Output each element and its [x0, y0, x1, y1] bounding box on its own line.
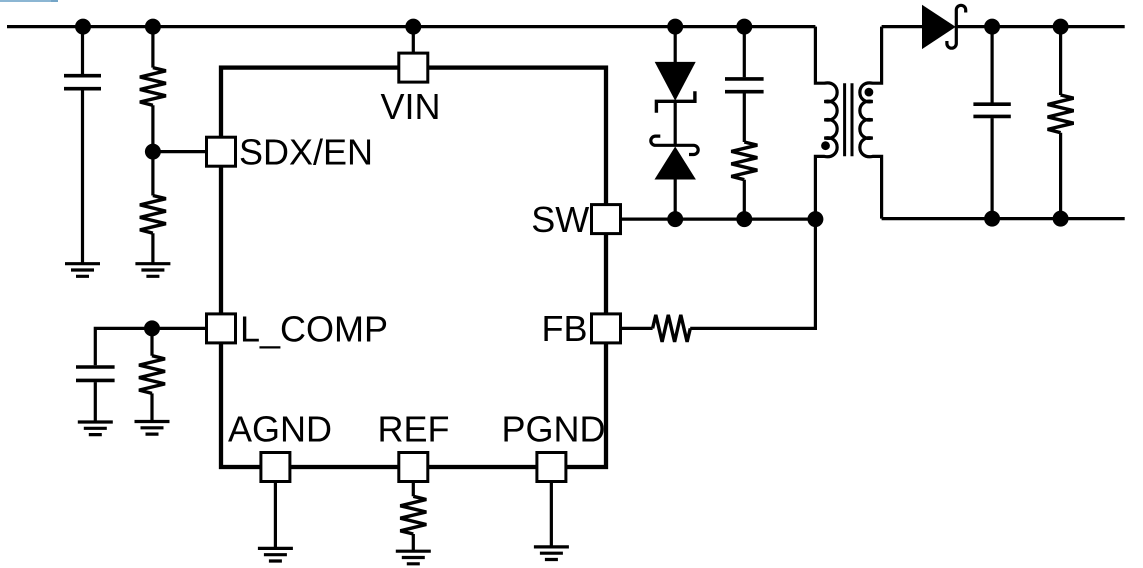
pin FB: [592, 314, 621, 343]
node: [1053, 211, 1069, 227]
wire: AGND stub: [274, 482, 277, 549]
ground (C2): [78, 422, 113, 435]
ground (C1): [65, 264, 100, 277]
wire: PGND stub: [550, 482, 553, 547]
wire: L_COMP net: [95, 328, 206, 365]
node: [75, 19, 91, 35]
pin VIN: [399, 53, 428, 82]
schottky cathode bar D2: [651, 136, 698, 154]
transformer T1 primary winding: [815, 27, 837, 220]
node: [1053, 19, 1069, 35]
node: [984, 211, 1000, 227]
svg-text:VIN: VIN: [381, 86, 441, 127]
selection artifact bar (top-left): [0, 0, 58, 2]
svg-text:SW: SW: [531, 199, 589, 240]
node: divider junction: [145, 144, 161, 160]
resistor R6 (snubber): [731, 142, 757, 180]
svg-text:FB: FB: [541, 308, 587, 349]
ground (PGND): [534, 547, 569, 560]
svg-text:L_COMP: L_COMP: [240, 308, 388, 349]
wire: output bottom rail: [882, 217, 1125, 220]
wire: between D1 and D2: [674, 101, 677, 147]
ground (R2): [135, 264, 170, 277]
pin REF: [399, 453, 428, 482]
node: [405, 19, 421, 35]
transformer T1 core: [845, 83, 852, 156]
svg-text:AGND: AGND: [228, 408, 332, 449]
svg-text:PGND: PGND: [502, 408, 606, 449]
resistor R5 (FB): [653, 315, 691, 342]
svg-text:SDX/EN: SDX/EN: [239, 132, 373, 173]
resistor R2 (divider lower): [151, 152, 154, 264]
node: [145, 19, 161, 35]
wire: VIN stub: [412, 27, 415, 54]
node: [984, 19, 1000, 35]
capacitor C2 (L_COMP): [76, 367, 115, 380]
capacitor C4 (output): [990, 27, 993, 219]
capacitor C1 (input): [81, 27, 84, 264]
wire: input top rail: [7, 25, 815, 28]
wire: FB net: [606, 219, 815, 328]
pin L_COMP: [207, 314, 236, 343]
pin SDX/EN: [207, 137, 236, 166]
pin SW: [592, 205, 621, 234]
transformer T1 secondary winding: [860, 27, 882, 219]
wire: output top rail: [956, 25, 1125, 28]
ground (REF): [396, 551, 431, 564]
ground (R3): [135, 422, 170, 435]
resistor R1 (divider upper): [151, 27, 154, 152]
capacitor C3 (snubber): [743, 27, 746, 142]
resistor R3 (L_COMP): [150, 328, 153, 421]
node: [667, 19, 683, 35]
pin PGND: [537, 453, 566, 482]
node: [807, 211, 823, 227]
schottky cathode bar D3: [947, 5, 966, 48]
zener cathode bar D1: [656, 91, 695, 113]
diode D1 (zener, snubber top): [674, 27, 677, 63]
wire: SW rail from SW pin to transformer: [606, 218, 815, 221]
pin AGND: [261, 453, 290, 482]
IC U1 body: [221, 68, 606, 467]
secondary phase dot: [865, 88, 874, 97]
wire: secondary top to diode: [882, 25, 922, 28]
wire: divider junction to SDX/EN: [153, 150, 207, 153]
node: [736, 211, 752, 227]
ground (AGND): [258, 548, 293, 561]
svg-text:REF: REF: [378, 408, 450, 449]
node: [736, 19, 752, 35]
resistor R4 (REF): [412, 482, 415, 552]
primary phase dot: [821, 141, 830, 150]
resistor R7 (output load): [1059, 27, 1062, 219]
node: [667, 211, 683, 227]
node: L_COMP junction: [144, 320, 160, 336]
diode D3 (output schottky): [922, 5, 956, 49]
